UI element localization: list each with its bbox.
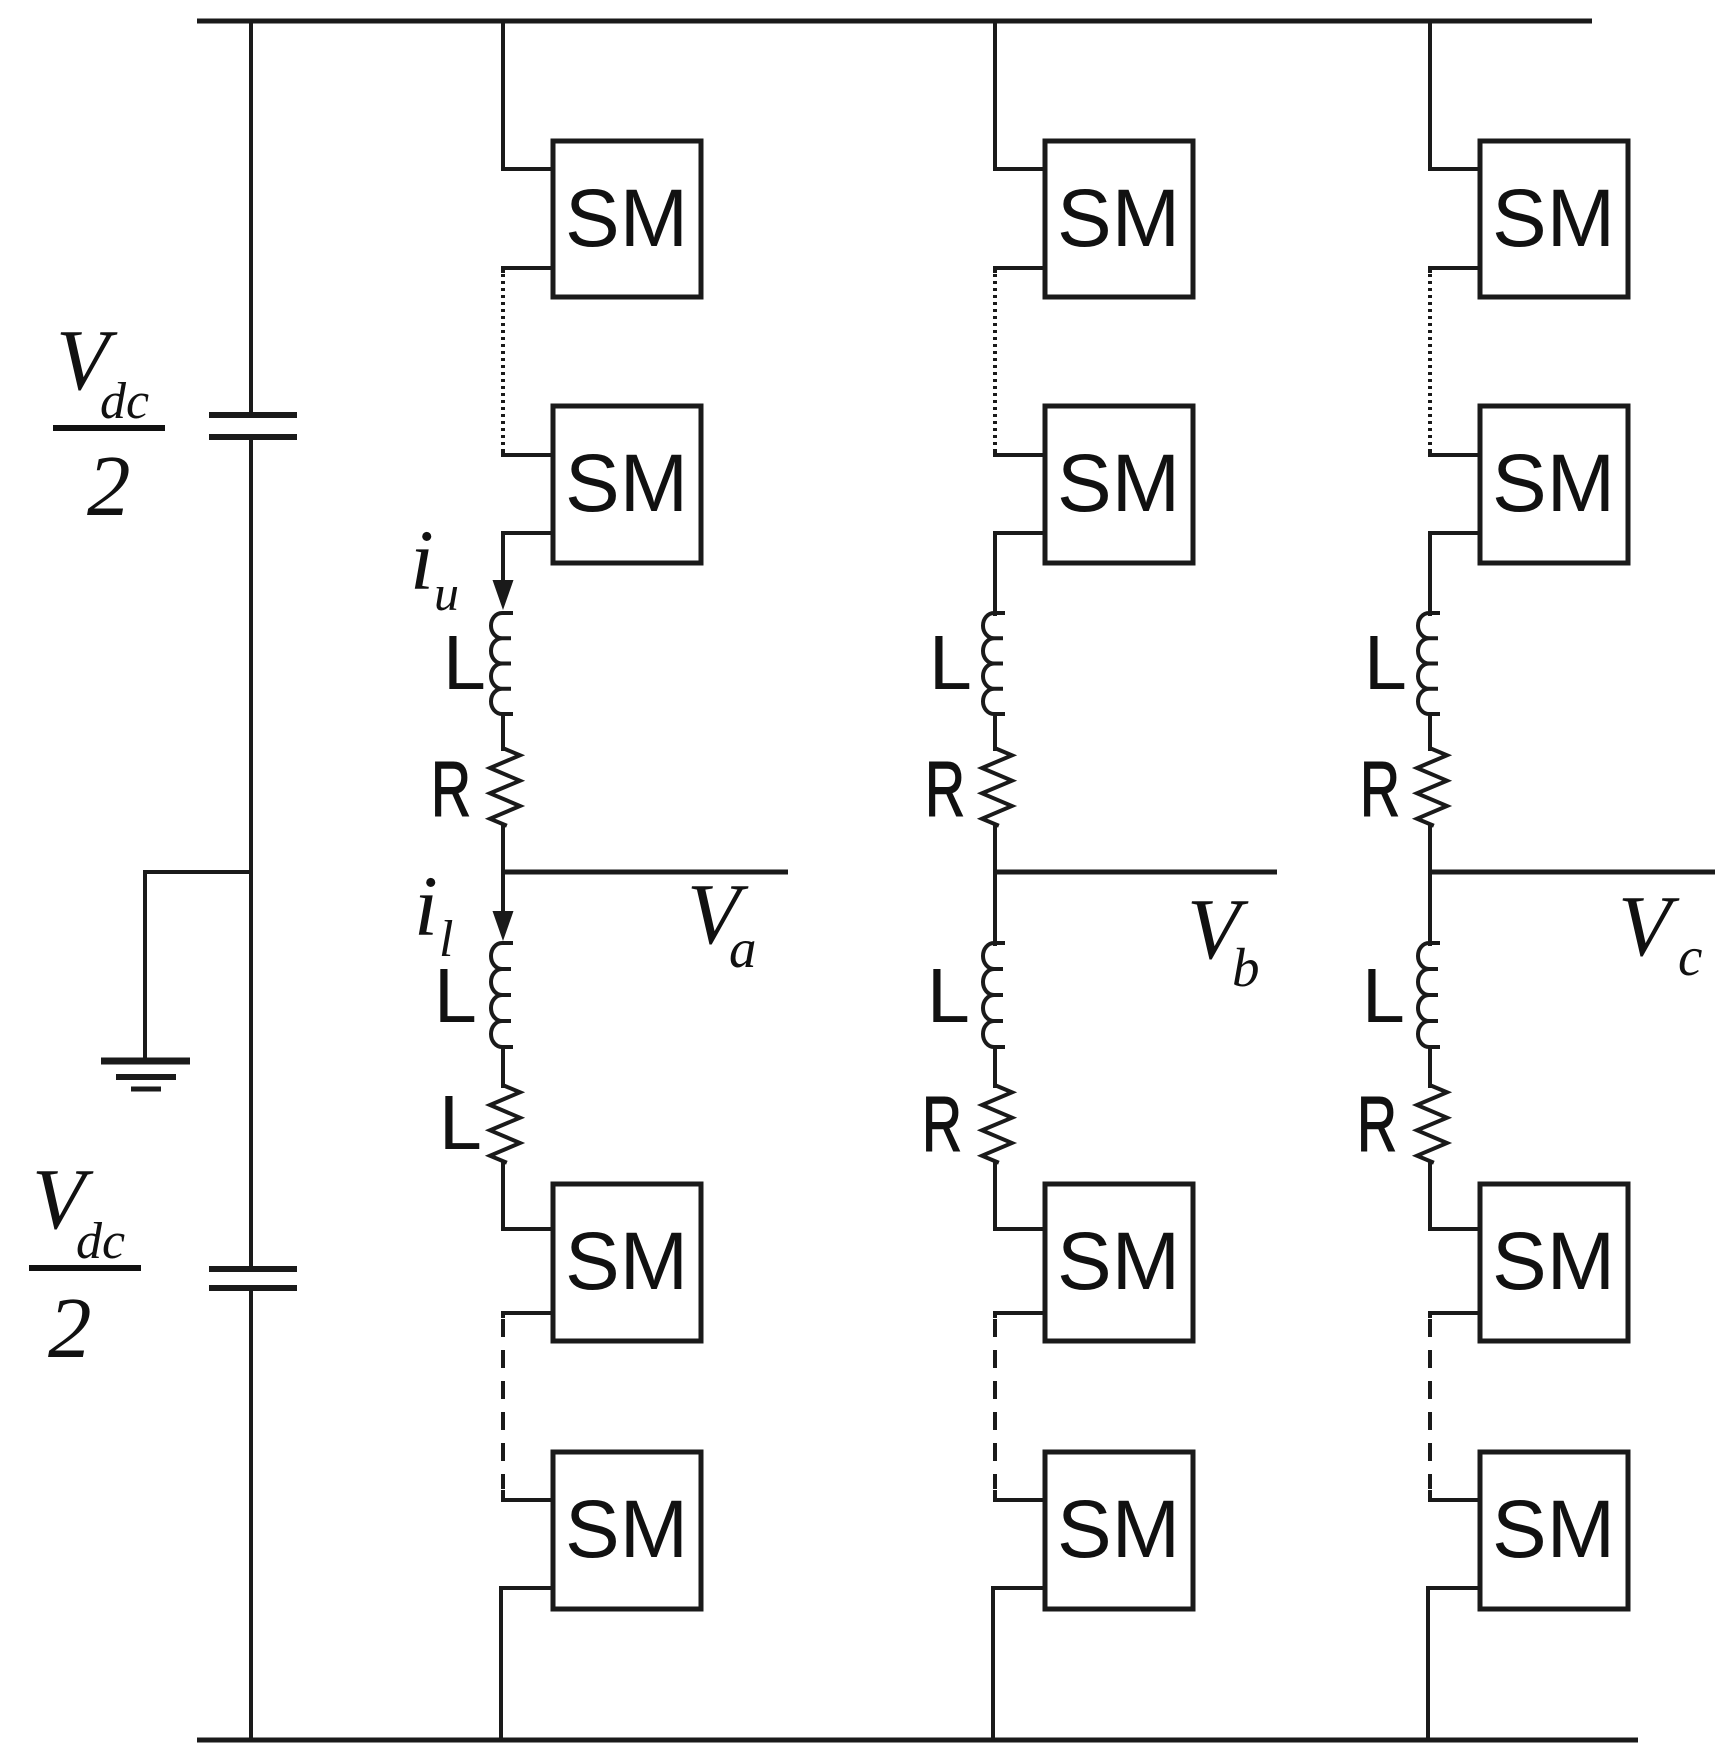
wire: DC-link vertical bus middle segment xyxy=(249,440,253,1266)
svg-text:SM: SM xyxy=(1492,438,1615,529)
svg-text:dc: dc xyxy=(76,1213,125,1270)
svg-text:SM: SM xyxy=(565,438,688,529)
label Va xyxy=(687,865,757,979)
svg-text:u: u xyxy=(434,565,459,621)
wire: upper arm to output node (phase b) xyxy=(993,825,997,872)
svg-text:dc: dc xyxy=(100,373,149,430)
inductor L (phase b upper arm) xyxy=(983,613,1003,714)
resistor R (phase b upper arm) xyxy=(982,749,1012,825)
wire: SMa2 lower lead xyxy=(503,531,553,535)
svg-text:2: 2 xyxy=(87,437,131,534)
wire: lower R to SMb3 (phase b) xyxy=(995,1162,1045,1229)
wire: SMc3 lower lead xyxy=(1430,1313,1480,1316)
svg-text:SM: SM xyxy=(1057,1484,1180,1575)
svg-text:L: L xyxy=(1364,620,1407,706)
label Vb xyxy=(1187,880,1260,998)
wire: dotted continuation (upper arm, omitted SMs) phase a xyxy=(501,274,505,452)
wire: dashed continuation (lower arm, omitted SMs) phase c xyxy=(1428,1319,1432,1489)
wire: SMb1 lower lead xyxy=(995,268,1045,271)
inductor L (phase c lower arm) xyxy=(1418,943,1438,1047)
wire: DC-link vertical bus upper segment xyxy=(249,21,253,413)
wire: midpoint branch to ground xyxy=(145,872,251,1058)
wire: SMb3 lower lead xyxy=(995,1313,1045,1316)
svg-text:L: L xyxy=(929,620,972,706)
svg-text:SM: SM xyxy=(1492,173,1615,264)
resistor R (phase b lower arm) xyxy=(982,1086,1012,1162)
wire: SMa1 lower lead xyxy=(503,268,553,271)
current label i_l xyxy=(414,858,453,968)
wire: SMb4 upper lead xyxy=(995,1492,1045,1500)
wire: dotted continuation (upper arm, omitted SMs) phase b xyxy=(993,274,997,452)
resistor R (phase a lower arm) xyxy=(490,1086,520,1162)
wire: negative DC bus rail (bottom) xyxy=(197,1738,1638,1743)
svg-text:SM: SM xyxy=(565,1484,688,1575)
SM submodule box a4 (phase a) xyxy=(553,1452,701,1609)
SM submodule box b4 (phase b) xyxy=(1045,1452,1193,1609)
svg-text:SM: SM xyxy=(1057,173,1180,264)
svg-text:L: L xyxy=(434,953,477,1039)
svg-text:SM: SM xyxy=(1492,1484,1615,1575)
current label i_u xyxy=(410,512,459,621)
svg-text:V: V xyxy=(1618,877,1680,974)
svg-text:R: R xyxy=(925,745,965,833)
wire: between lower L and lower R (phase b) xyxy=(993,1047,997,1086)
wire: SMc4 lower lead to bottom rail xyxy=(1428,1588,1480,1740)
wire: SMc2 upper lead xyxy=(1430,453,1480,455)
resistor R (phase a upper arm) xyxy=(490,749,520,825)
wire: between L and R (phase a upper arm) xyxy=(501,714,505,749)
wire: lower-arm conductor phase b xyxy=(993,872,997,944)
svg-text:SM: SM xyxy=(565,1216,688,1307)
wire: lower R to SMa3 (phase a) xyxy=(503,1162,553,1229)
svg-text:R: R xyxy=(922,1080,962,1168)
SM submodule box b1 (phase b) xyxy=(1045,141,1193,297)
wire: between lower L and lower R (phase c) xyxy=(1428,1047,1432,1086)
inductor L (phase b lower arm) xyxy=(983,943,1003,1047)
node Vb: AC output line xyxy=(995,870,1277,875)
SM submodule box c4 (phase c) xyxy=(1480,1452,1628,1609)
svg-text:SM: SM xyxy=(1492,1216,1615,1307)
svg-text:b: b xyxy=(1232,937,1260,998)
node Vc: AC output line xyxy=(1430,870,1715,875)
svg-text:i: i xyxy=(414,858,438,954)
svg-text:SM: SM xyxy=(1057,438,1180,529)
inductor L (phase c upper arm) xyxy=(1418,613,1438,714)
wire: SMa4 lower lead to bottom rail xyxy=(501,1588,553,1740)
wire: upper-arm conductor phase b xyxy=(993,533,997,614)
wire: between L and R (phase b upper arm) xyxy=(993,714,997,749)
resistor R (phase c upper arm) xyxy=(1417,749,1447,825)
capacitor C2 (lower DC-link, Vdc/2) xyxy=(209,1269,297,1288)
svg-text:L: L xyxy=(443,620,486,706)
wire: dotted continuation (upper arm, omitted SMs) phase c xyxy=(1428,274,1432,452)
inductor L (phase a upper arm) xyxy=(491,613,511,714)
wire: SMc4 upper lead xyxy=(1430,1492,1480,1500)
wire: SMa3 lower lead xyxy=(503,1313,553,1316)
wire: phase c drop from top rail xyxy=(1430,21,1480,169)
wire: SMb4 lower lead to bottom rail xyxy=(993,1588,1045,1740)
SM submodule box a3 (phase a) xyxy=(553,1184,701,1341)
wire: positive DC bus rail (top) xyxy=(197,19,1592,24)
SM submodule box b2 (phase b) xyxy=(1045,406,1193,563)
SM submodule box a1 (phase a) xyxy=(553,141,701,297)
capacitor C1 (upper DC-link, Vdc/2) xyxy=(209,415,297,437)
SM submodule box c3 (phase c) xyxy=(1480,1184,1628,1341)
value label: upper Vdc/2 xyxy=(53,311,165,534)
wire: upper-arm conductor with current arrow i_u xyxy=(501,533,505,600)
wire: between L and R (phase c upper arm) xyxy=(1428,714,1432,749)
wire: lower-arm conductor with current arrow i_l xyxy=(501,872,505,930)
SM submodule box b3 (phase b) xyxy=(1045,1184,1193,1341)
svg-text:L: L xyxy=(1362,953,1405,1039)
SM submodule box a2 (phase a) xyxy=(553,406,701,563)
svg-text:R: R xyxy=(1357,1080,1397,1168)
wire: lower R to SMc3 (phase c) xyxy=(1430,1162,1480,1229)
node Va: AC output line xyxy=(503,870,788,875)
wire: upper-arm conductor phase c xyxy=(1428,533,1432,614)
wire: lower-arm conductor phase c xyxy=(1428,872,1432,944)
wire: SMb2 upper lead xyxy=(995,453,1045,455)
svg-text:L: L xyxy=(927,953,970,1039)
wire: SMa2 upper lead xyxy=(503,453,553,455)
wire: phase b drop from top rail xyxy=(995,21,1045,169)
svg-text:L: L xyxy=(439,1080,482,1166)
value label: lower Vdc/2 xyxy=(29,1150,141,1376)
wire: SMc2 lower lead xyxy=(1430,531,1480,535)
wire: dashed continuation (lower arm, omitted SMs) phase b xyxy=(993,1319,997,1489)
svg-text:i: i xyxy=(410,512,434,608)
svg-text:SM: SM xyxy=(565,173,688,264)
SM submodule box c2 (phase c) xyxy=(1480,406,1628,563)
wire: SMb2 lower lead xyxy=(995,531,1045,535)
inductor L (phase a lower arm) xyxy=(491,943,511,1047)
svg-text:SM: SM xyxy=(1057,1216,1180,1307)
wire: upper arm to output node (phase a) xyxy=(501,825,505,872)
svg-text:2: 2 xyxy=(48,1279,92,1376)
wire: dashed continuation (lower arm, omitted SMs) phase a xyxy=(501,1319,505,1489)
svg-text:R: R xyxy=(1360,745,1400,833)
resistor R (phase c lower arm) xyxy=(1417,1086,1447,1162)
wire: phase a drop from top rail xyxy=(503,21,553,169)
wire: SMc1 lower lead xyxy=(1430,268,1480,271)
SM submodule box c1 (phase c) xyxy=(1480,141,1628,297)
ground xyxy=(101,1061,190,1089)
svg-text:c: c xyxy=(1678,926,1702,987)
svg-text:R: R xyxy=(431,745,471,833)
wire: DC-link vertical bus lower segment xyxy=(249,1291,253,1740)
wire: SMa4 upper lead xyxy=(503,1492,553,1500)
label Vc xyxy=(1618,877,1702,987)
svg-text:a: a xyxy=(729,918,757,979)
wire: between lower L and lower R (phase a) xyxy=(501,1047,505,1086)
wire: upper arm to output node (phase c) xyxy=(1428,825,1432,872)
